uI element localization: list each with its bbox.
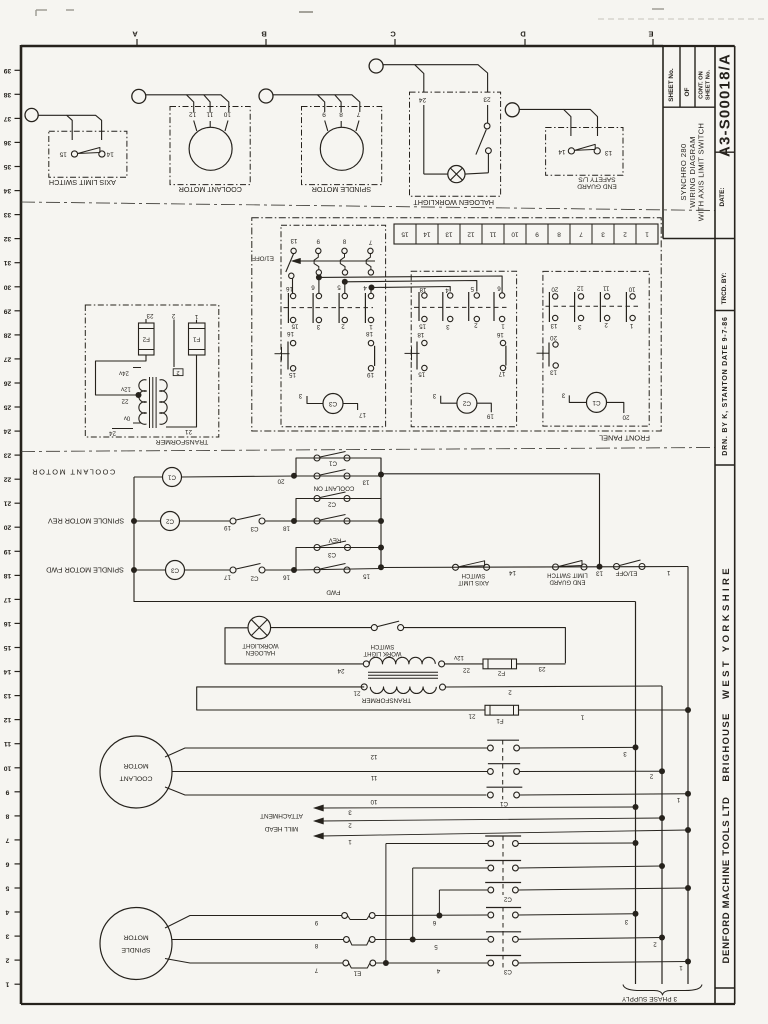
- svg-text:20: 20: [550, 334, 557, 341]
- front panel enclosure box: [252, 218, 661, 431]
- svg-text:4: 4: [445, 287, 449, 294]
- svg-text:4: 4: [436, 967, 440, 974]
- coolant motor M2 enclosure box: [170, 107, 250, 185]
- svg-text:21: 21: [468, 712, 475, 719]
- svg-text:21: 21: [353, 689, 360, 696]
- C3 actuator tick: [275, 353, 290, 355]
- svg-text:24: 24: [337, 667, 344, 674]
- terminal 17 and C2 interlock contact: [185, 569, 231, 571]
- svg-text:TRANSFORMER: TRANSFORMER: [361, 696, 411, 703]
- end guard safety limit switch enclosure box: [546, 128, 623, 176]
- svg-text:C3: C3: [250, 525, 258, 532]
- svg-text:DRN. BY K, STANTON DATE 9-7: DRN. BY K, STANTON DATE 9-7-86: [722, 316, 729, 455]
- svg-text:20: 20: [551, 286, 558, 293]
- svg-text:END GUARD: END GUARD: [577, 183, 617, 190]
- svg-text:0v: 0v: [124, 415, 130, 421]
- svg-text:3: 3: [561, 391, 565, 398]
- overload E1 contacts: [342, 913, 348, 919]
- svg-text:19: 19: [4, 548, 12, 555]
- svg-text:33: 33: [4, 211, 12, 218]
- wire F2 to 24v/12v taps: [96, 355, 147, 395]
- svg-text:3: 3: [578, 323, 582, 330]
- svg-text:LIMIT SWITCH: LIMIT SWITCH: [547, 571, 588, 577]
- axis limit switch contact 14-15: [71, 151, 77, 157]
- svg-text:23: 23: [146, 312, 153, 319]
- svg-text:14: 14: [558, 148, 566, 155]
- svg-text:SPINDLE MOTOR FWD: SPINDLE MOTOR FWD: [46, 566, 124, 575]
- svg-text:SYNCHRO 280: SYNCHRO 280: [679, 143, 688, 200]
- C1 contact bars: [548, 292, 550, 322]
- C1 lower terminals: [553, 315, 558, 320]
- title block frame: [662, 46, 664, 239]
- svg-text:16: 16: [4, 620, 12, 627]
- svg-text:3: 3: [5, 933, 9, 940]
- svg-text:9: 9: [535, 231, 539, 238]
- svg-text:OF: OF: [684, 87, 691, 96]
- svg-text:F2: F2: [142, 336, 150, 343]
- svg-text:19: 19: [224, 524, 231, 531]
- svg-text:12: 12: [370, 753, 377, 760]
- svg-text:13: 13: [550, 369, 557, 376]
- svg-text:15: 15: [291, 323, 298, 330]
- svg-text:11: 11: [370, 774, 377, 781]
- svg-text:D: D: [520, 30, 526, 39]
- end guard limit switch contact in control line: [553, 564, 559, 570]
- connector circle to spindle motor: [259, 89, 273, 103]
- contactor C1 main contacts: [487, 739, 519, 741]
- svg-text:BRIGHOUSE: BRIGHOUSE: [721, 712, 732, 781]
- phase 2 bus: [661, 686, 663, 984]
- svg-text:DATE:: DATE:: [719, 187, 726, 206]
- svg-text:AXIS LIMIT SWITCH: AXIS LIMIT SWITCH: [49, 178, 116, 187]
- svg-text:2: 2: [348, 822, 352, 829]
- svg-text:9: 9: [5, 788, 9, 795]
- svg-text:12: 12: [467, 231, 475, 238]
- svg-text:7: 7: [314, 967, 318, 974]
- svg-text:MOTOR: MOTOR: [123, 934, 148, 941]
- end guard switch contact 13-14: [568, 148, 574, 154]
- svg-text:29: 29: [4, 307, 12, 314]
- wire lamp to switch: [271, 627, 372, 629]
- transformer primary terminal right: [440, 684, 446, 690]
- mechanical linkage arrow to E1/OFF: [299, 260, 375, 262]
- contactor C3 block outline: [281, 225, 386, 426]
- C2 actuator tick: [405, 352, 420, 354]
- svg-text:39: 39: [4, 67, 12, 74]
- svg-text:13: 13: [550, 322, 557, 329]
- svg-text:SPINDLE: SPINDLE: [121, 946, 151, 953]
- svg-text:SHEET No.: SHEET No.: [668, 68, 675, 102]
- svg-text:F1: F1: [192, 336, 200, 343]
- phase 1 bus: [687, 710, 689, 984]
- svg-text:A: A: [132, 30, 138, 39]
- coolant motor M2 circle bottom: [100, 736, 172, 808]
- C3 aux / FWD parallel contacts: [296, 548, 381, 571]
- spindle motor M3 enclosure box: [302, 107, 382, 185]
- spindle motor M3 circle bottom: [100, 908, 172, 980]
- svg-text:30: 30: [4, 283, 12, 290]
- svg-text:17: 17: [498, 370, 505, 377]
- halogen lamp symbol: [448, 166, 465, 183]
- cable from connector to axis limit switch leads: [38, 115, 72, 140]
- svg-text:E1: E1: [353, 969, 361, 976]
- wire coil C1 to contact group: [182, 476, 297, 477]
- svg-text:2: 2: [649, 773, 653, 780]
- svg-text:C1: C1: [167, 474, 175, 481]
- cable from connector to halogen worklight: [383, 65, 424, 92]
- svg-text:3: 3: [601, 231, 605, 238]
- svg-text:3 PHASE SUPPLY: 3 PHASE SUPPLY: [621, 995, 677, 1002]
- wire bus to coil C3: [134, 569, 166, 571]
- wire control line down to phase 1 bus: [687, 567, 689, 711]
- svg-text:12v: 12v: [454, 654, 464, 660]
- svg-text:6: 6: [311, 284, 315, 291]
- svg-text:C2: C2: [165, 518, 173, 525]
- svg-text:21: 21: [185, 428, 192, 435]
- transformer primary winding: [370, 687, 436, 694]
- svg-text:SWITCH: SWITCH: [371, 643, 395, 649]
- svg-text:15: 15: [59, 151, 67, 158]
- fuse F1: [485, 705, 519, 715]
- svg-text:28: 28: [4, 331, 12, 338]
- left control bus: [134, 477, 636, 602]
- svg-text:31: 31: [4, 259, 12, 266]
- svg-text:2: 2: [508, 688, 512, 695]
- svg-text:C3: C3: [503, 968, 511, 975]
- svg-text:TRANSFORMER: TRANSFORMER: [156, 438, 209, 445]
- svg-text:18: 18: [419, 286, 426, 293]
- svg-text:TRCD. BY:: TRCD. BY:: [721, 273, 728, 305]
- wires C3 contacts to buses: [518, 914, 635, 915]
- svg-text:1: 1: [5, 981, 9, 988]
- svg-text:ATTACHMENT: ATTACHMENT: [260, 812, 303, 819]
- svg-text:13: 13: [290, 237, 297, 244]
- svg-text:SWITCH: SWITCH: [462, 572, 486, 578]
- 3 phase supply brace: [623, 985, 702, 996]
- wire primary to phase 2 bus: [446, 686, 663, 687]
- svg-text:11: 11: [4, 740, 11, 747]
- svg-text:10: 10: [628, 286, 635, 293]
- C2 contact bars: [418, 292, 420, 321]
- C2 linkage dashed line: [414, 306, 510, 308]
- transformer detail enclosure box: [85, 305, 219, 437]
- cable from connector to spindle motor leads: [273, 95, 325, 112]
- svg-text:11: 11: [602, 285, 609, 292]
- svg-text:6: 6: [5, 860, 9, 867]
- svg-text:4: 4: [5, 909, 9, 916]
- svg-text:2: 2: [341, 323, 345, 330]
- svg-text:1: 1: [676, 796, 680, 803]
- svg-text:4: 4: [363, 284, 367, 291]
- svg-text:5: 5: [434, 943, 438, 950]
- svg-text:HALOGEN: HALOGEN: [246, 649, 275, 655]
- svg-text:16: 16: [286, 285, 293, 292]
- svg-text:5: 5: [337, 284, 341, 291]
- C2 aux / REV parallel contacts: [296, 499, 381, 522]
- svg-text:CONT. ON: CONT. ON: [699, 71, 705, 99]
- svg-text:SAFETY L/S: SAFETY L/S: [578, 176, 616, 183]
- svg-text:10: 10: [511, 231, 519, 238]
- svg-text:FRONT PANEL: FRONT PANEL: [599, 434, 650, 443]
- phase 3 bus: [635, 602, 637, 985]
- transformer secondary terminal 22 / 12v: [439, 661, 445, 667]
- svg-text:37: 37: [4, 115, 12, 122]
- svg-text:19: 19: [367, 371, 374, 378]
- svg-text:C3: C3: [328, 400, 337, 407]
- svg-text:AXIS LIMIT: AXIS LIMIT: [458, 579, 489, 585]
- section divider chain line upper: [21, 202, 715, 211]
- wire bus to coil C2: [134, 520, 161, 522]
- C3 top terminals 13 9 8 7: [291, 248, 296, 253]
- svg-text:1: 1: [645, 231, 649, 238]
- svg-text:COOLANT MOTOR: COOLANT MOTOR: [179, 185, 242, 194]
- svg-text:C2: C2: [462, 400, 471, 407]
- worklight loop wiring left: [225, 628, 363, 664]
- halogen worklight lamp in control circuit: [248, 616, 271, 639]
- svg-text:16: 16: [287, 330, 294, 337]
- svg-text:25: 25: [4, 404, 12, 411]
- svg-text:36: 36: [4, 139, 12, 146]
- svg-text:E1/OFF: E1/OFF: [615, 570, 637, 577]
- svg-text:13: 13: [596, 569, 603, 576]
- coil C2 relay: [161, 512, 180, 531]
- coolant motor M2 circle: [189, 127, 232, 170]
- C3 junction stubs down: [292, 279, 294, 294]
- contactor C2 main contacts crossover: [386, 843, 488, 845]
- svg-text:C2: C2: [503, 895, 511, 902]
- C1 actuator tick: [537, 352, 550, 354]
- C3 main contact steps: [314, 254, 319, 270]
- axis limit switch contact in control line: [453, 564, 459, 570]
- svg-text:14: 14: [4, 668, 12, 675]
- svg-text:2: 2: [653, 941, 657, 948]
- svg-text:19: 19: [486, 413, 493, 420]
- svg-text:32: 32: [4, 235, 12, 242]
- connector circle to end guard switch: [505, 103, 519, 117]
- mill head attachment arrows: [321, 807, 636, 808]
- svg-text:C2: C2: [250, 574, 258, 581]
- section divider chain line lower: [21, 448, 715, 452]
- C2 lower terminals: [422, 316, 427, 321]
- contactor C2 block outline: [411, 271, 516, 426]
- C1 linkage dashed line: [546, 305, 641, 307]
- svg-text:1: 1: [194, 313, 198, 320]
- svg-text:1: 1: [679, 964, 683, 971]
- svg-text:SPINDLE MOTOR REV: SPINDLE MOTOR REV: [48, 517, 124, 526]
- svg-text:14: 14: [423, 231, 431, 238]
- svg-text:17: 17: [359, 411, 366, 418]
- contactor C3 main contacts: [486, 907, 521, 909]
- svg-text:2: 2: [474, 322, 478, 329]
- svg-text:7: 7: [356, 111, 360, 118]
- svg-text:9: 9: [316, 238, 320, 245]
- svg-text:WORK LIGHT: WORK LIGHT: [363, 650, 401, 656]
- cable from connector to end guard switch leads: [519, 109, 571, 136]
- cable from connector to coolant motor leads: [146, 95, 194, 112]
- svg-text:24: 24: [109, 430, 116, 437]
- E1/OFF switch lever: [286, 254, 294, 272]
- transformer detail secondary winding: [139, 380, 147, 425]
- coil C3 relay: [166, 561, 185, 580]
- svg-text:14: 14: [106, 151, 114, 158]
- wires C2 contacts to buses: [518, 842, 635, 845]
- svg-text:1: 1: [667, 569, 671, 576]
- svg-text:COOLANT MOTOR: COOLANT MOTOR: [31, 468, 116, 477]
- wire F1 to 21 tap: [166, 355, 197, 427]
- axis limit switch S4 enclosure box: [49, 131, 127, 177]
- svg-text:10: 10: [223, 111, 231, 118]
- svg-text:12: 12: [4, 716, 12, 723]
- connector circle to halogen worklight: [369, 59, 383, 73]
- svg-text:C3: C3: [327, 551, 335, 558]
- wire F1 to phase 1 bus: [519, 709, 689, 711]
- svg-text:10: 10: [4, 764, 12, 771]
- svg-text:SHEET No.: SHEET No.: [706, 69, 712, 100]
- svg-text:20: 20: [4, 524, 12, 531]
- svg-text:DENFORD MACHINE TOOLS LTD: DENFORD MACHINE TOOLS LTD: [721, 796, 732, 963]
- svg-text:11: 11: [489, 231, 496, 238]
- svg-text:3: 3: [432, 392, 436, 399]
- svg-text:22: 22: [121, 398, 128, 405]
- svg-text:23: 23: [4, 452, 12, 459]
- svg-text:13: 13: [4, 692, 12, 699]
- svg-text:9: 9: [322, 111, 326, 118]
- svg-text:C1: C1: [328, 459, 336, 466]
- svg-text:3: 3: [623, 750, 627, 757]
- svg-text:END GUARD: END GUARD: [549, 579, 586, 585]
- svg-text:C1: C1: [592, 399, 601, 406]
- svg-text:8: 8: [314, 942, 318, 949]
- svg-text:2: 2: [5, 957, 9, 964]
- svg-text:B: B: [261, 30, 267, 39]
- svg-text:15: 15: [419, 322, 426, 329]
- svg-text:14: 14: [509, 569, 516, 576]
- svg-text:24: 24: [4, 428, 12, 435]
- svg-text:A3-S00018/A: A3-S00018/A: [717, 53, 734, 157]
- svg-text:15: 15: [363, 573, 370, 580]
- transformer core lines: [368, 671, 438, 673]
- svg-text:13: 13: [445, 231, 453, 238]
- svg-text:26: 26: [4, 380, 12, 387]
- svg-text:FWD: FWD: [326, 589, 341, 596]
- coolant motor feed wires 12 11 10: [165, 748, 488, 757]
- contactor C1 block outline: [543, 271, 649, 426]
- svg-text:1: 1: [501, 322, 505, 329]
- wire switch to fuse 23 side: [404, 628, 566, 664]
- worklight switch contact: [371, 625, 377, 631]
- svg-text:3: 3: [298, 392, 302, 399]
- svg-text:3: 3: [316, 323, 320, 330]
- svg-text:20: 20: [277, 478, 284, 485]
- svg-text:1: 1: [348, 838, 352, 845]
- C1 aux / COOLANT ON parallel contacts: [296, 458, 381, 476]
- svg-text:C2: C2: [327, 501, 335, 508]
- fuse F2: [483, 659, 517, 669]
- svg-text:7: 7: [579, 231, 583, 238]
- C3 wires to C2/C1 nets 6 5 4: [319, 276, 502, 293]
- transformer primary winding terminal 21: [361, 684, 367, 690]
- svg-text:2: 2: [623, 231, 627, 238]
- svg-text:18: 18: [283, 525, 290, 532]
- C2 top terminals 18 4 5 6: [422, 293, 427, 298]
- C3 linkage dashed line: [284, 307, 374, 309]
- svg-text:18: 18: [4, 572, 12, 579]
- svg-text:18: 18: [417, 331, 424, 338]
- wire F2 to 23: [517, 663, 566, 665]
- svg-text:17: 17: [4, 596, 12, 603]
- drawing sheet border frame: [21, 45, 663, 48]
- svg-text:23: 23: [483, 95, 491, 102]
- svg-text:8: 8: [342, 238, 346, 245]
- connector circle to coolant motor: [132, 89, 146, 103]
- C3 lower contact circles: [290, 293, 295, 298]
- svg-text:E1/OFF: E1/OFF: [252, 255, 274, 262]
- svg-text:COOLANT ON: COOLANT ON: [314, 485, 355, 492]
- main control wire with safety switches: [381, 567, 688, 568]
- svg-text:WORKLIGHT: WORKLIGHT: [242, 642, 279, 648]
- svg-text:13: 13: [605, 149, 613, 156]
- svg-text:2: 2: [604, 321, 608, 328]
- svg-text:3: 3: [446, 323, 450, 330]
- svg-text:SPINDLE MOTOR: SPINDLE MOTOR: [312, 185, 371, 194]
- svg-text:38: 38: [4, 91, 12, 98]
- transformer detail core: [149, 377, 151, 428]
- svg-text:C1: C1: [499, 800, 507, 807]
- svg-text:15: 15: [418, 370, 425, 377]
- svg-text:11: 11: [206, 111, 213, 118]
- svg-text:22: 22: [463, 667, 470, 674]
- C3 coil: [323, 394, 343, 414]
- svg-text:MILL HEAD: MILL HEAD: [264, 825, 298, 832]
- right control bus: [380, 458, 382, 568]
- E1/OFF contact in control line: [614, 564, 620, 570]
- svg-text:COOLANT: COOLANT: [120, 775, 153, 782]
- svg-text:F1: F1: [496, 717, 504, 724]
- wire primary left to fuse F1 row: [197, 687, 485, 710]
- wire net 13 up to C1 contact group: [381, 474, 600, 567]
- halogen worklight enclosure box: [410, 92, 501, 196]
- svg-text:8: 8: [339, 111, 343, 118]
- svg-text:3: 3: [624, 918, 628, 925]
- svg-text:8: 8: [5, 812, 9, 819]
- svg-text:MOTOR: MOTOR: [123, 762, 148, 769]
- wire to fuse F2: [445, 663, 483, 665]
- svg-text:1: 1: [369, 323, 373, 330]
- C1 top terminals 20 12 11 10: [553, 294, 558, 299]
- svg-text:6: 6: [432, 919, 436, 926]
- svg-text:16: 16: [283, 573, 290, 580]
- svg-text:1: 1: [629, 322, 633, 329]
- svg-text:5: 5: [5, 885, 9, 892]
- transformer detail primary winding: [160, 380, 168, 425]
- wires C1 contacts to buses: [520, 746, 636, 749]
- svg-text:13: 13: [362, 479, 369, 486]
- svg-text:35: 35: [4, 163, 12, 170]
- svg-text:6: 6: [497, 285, 501, 292]
- svg-text:2: 2: [176, 369, 179, 375]
- svg-text:15: 15: [289, 371, 296, 378]
- spindle motor leads: [325, 121, 328, 132]
- svg-text:E: E: [648, 30, 653, 39]
- terminal strip TB1: [394, 224, 658, 244]
- worklight internal switch: [487, 105, 489, 123]
- svg-text:22: 22: [4, 476, 12, 483]
- connector circle to axis limit switch: [25, 108, 38, 121]
- svg-text:C3: C3: [170, 567, 178, 574]
- worklight lamp wiring: [487, 154, 489, 173]
- svg-text:15: 15: [4, 644, 12, 651]
- svg-text:21: 21: [4, 500, 12, 507]
